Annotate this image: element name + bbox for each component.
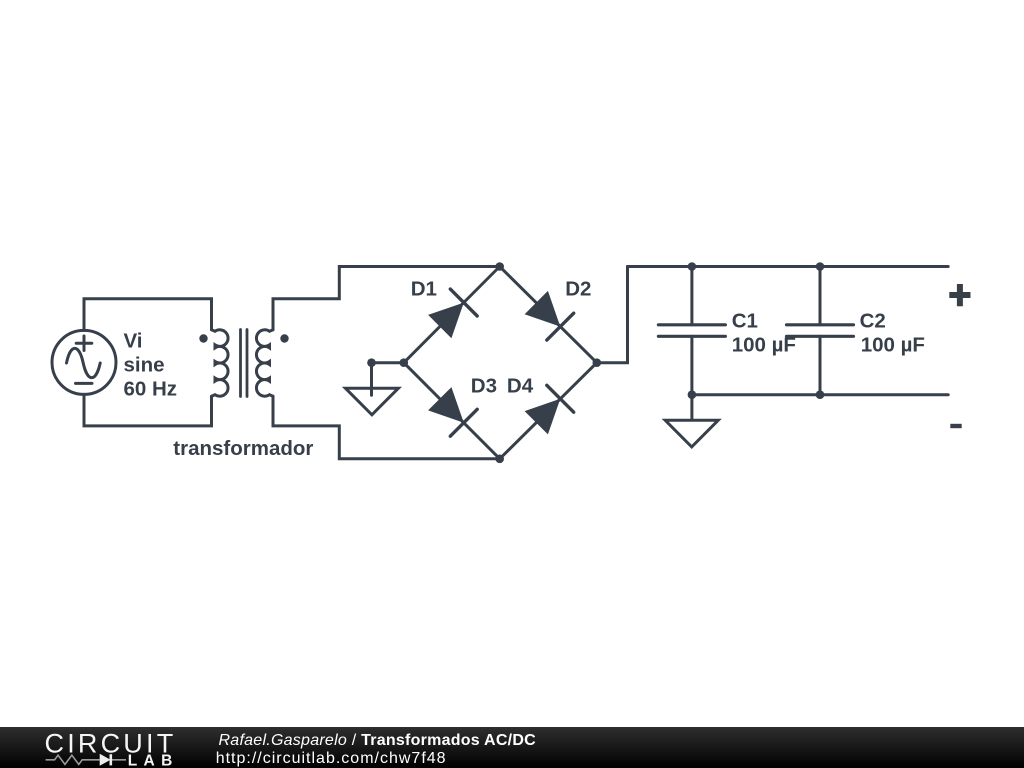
- node C1 top: [688, 262, 697, 271]
- node top of bridge: [495, 262, 504, 271]
- bottom output rail: [692, 393, 948, 396]
- svg-text:100 µF: 100 µF: [861, 334, 925, 357]
- transformer core bars: [241, 330, 248, 397]
- node bottom of bridge: [495, 455, 504, 464]
- svg-text:C2: C2: [860, 310, 886, 333]
- svg-text:D2: D2: [565, 277, 591, 300]
- diode D1 cathode bar: [450, 289, 477, 316]
- capacitor C1 bottom lead: [690, 336, 693, 394]
- footer bar: [0, 727, 1024, 768]
- bridge edge wire D2: [500, 267, 597, 363]
- voltage source minus sign: [76, 382, 93, 385]
- diode D4 triangle: [525, 399, 561, 435]
- node C1 bottom: [688, 390, 697, 399]
- bridge edge wire D4: [500, 363, 597, 459]
- wire source bottom to primary: [84, 394, 212, 426]
- logo resistor zigzag and wire: [46, 755, 126, 764]
- top output rail: [628, 265, 949, 268]
- ground lead at C1: [690, 395, 693, 420]
- transformer primary phase dot: [199, 334, 207, 342]
- diode D2 triangle: [525, 291, 561, 327]
- capacitor C2 plates: [787, 325, 854, 337]
- wire secondary bottom to bridge bottom node: [273, 396, 500, 459]
- output plus symbol: [949, 284, 970, 306]
- diode D3 triangle: [428, 387, 464, 423]
- voltage source V1 circle: [52, 330, 116, 394]
- bridge edge wire D3: [404, 363, 500, 459]
- node left of bridge: [400, 358, 409, 367]
- node ground junction at bridge: [367, 358, 376, 367]
- wire secondary top to bridge top node: [273, 267, 500, 330]
- transformer secondary coil: [256, 330, 273, 396]
- output minus symbol: [950, 424, 961, 428]
- node C2 top: [816, 262, 825, 271]
- diode D1 triangle: [428, 303, 464, 339]
- svg-text:Vi: Vi: [124, 329, 143, 352]
- svg-text:60 Hz: 60 Hz: [124, 378, 178, 401]
- wire ground to bridge left node: [372, 361, 404, 364]
- node right of bridge: [593, 358, 602, 367]
- ground lead at bridge: [370, 363, 373, 396]
- svg-text:Rafael.Gasparelo / Transformad: Rafael.Gasparelo / Transformados AC/DC: [219, 732, 537, 749]
- voltage source sine wave: [67, 348, 101, 377]
- voltage source plus sign: [76, 336, 92, 351]
- bridge edge wire D1: [404, 267, 500, 363]
- logo diode bar: [110, 754, 113, 765]
- capacitor C1 top lead: [690, 267, 693, 325]
- svg-text:LAB: LAB: [128, 753, 179, 768]
- diode D2 cathode bar: [547, 313, 574, 340]
- capacitor C2 bottom lead: [819, 336, 822, 394]
- svg-text:transformador: transformador: [173, 437, 313, 460]
- logo diode triangle: [100, 754, 111, 766]
- diode D3 cathode bar: [450, 409, 477, 436]
- transformer primary coil: [212, 330, 229, 396]
- svg-text:100 µF: 100 µF: [732, 334, 796, 357]
- svg-text:D4: D4: [507, 375, 534, 398]
- node C2 bottom: [816, 390, 825, 399]
- wire bridge right node to riser: [597, 267, 628, 363]
- svg-text:D3: D3: [471, 375, 497, 398]
- svg-text:D1: D1: [411, 277, 437, 300]
- capacitor C1 plates: [658, 325, 725, 337]
- transformer secondary phase dot: [280, 334, 288, 342]
- svg-text:sine: sine: [124, 354, 165, 377]
- diode D4 cathode bar: [547, 385, 574, 412]
- ground symbol at bridge: [345, 388, 398, 415]
- ground symbol at C1: [665, 420, 718, 447]
- svg-text:C1: C1: [732, 310, 758, 333]
- wire source top to primary: [84, 299, 212, 331]
- capacitor C2 top lead: [819, 267, 822, 325]
- svg-text:http://circuitlab.com/chw7f48: http://circuitlab.com/chw7f48: [216, 750, 447, 767]
